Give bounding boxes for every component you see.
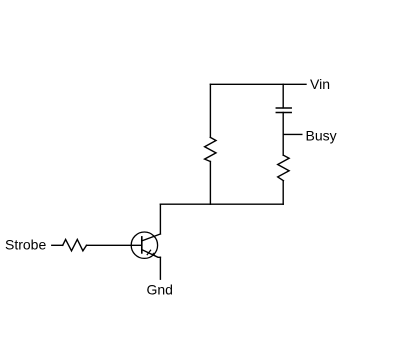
transistor Q1 emitter arrow barb (147, 250, 150, 254)
svg-text:Strobe: Strobe (5, 236, 46, 252)
wire right branch bottom vertical (282, 181, 284, 205)
capacitor C1 top plate (276, 107, 291, 109)
resistor R1 (left pull-up) (205, 137, 216, 161)
transistor Q1 body circle (131, 232, 157, 258)
wire emitter vertical to Gnd (159, 257, 161, 279)
wire left branch top vertical (209, 84, 211, 137)
wire right branch top vertical (282, 84, 284, 108)
wire capacitor to resistor vertical (282, 113, 284, 156)
wire resistor to base (87, 244, 142, 246)
transistor Q1 emitter arrow tip (152, 252, 156, 256)
transistor Q1 collector lead (142, 234, 161, 241)
wire collector vertical (159, 204, 161, 234)
resistor R2 (right) (278, 155, 289, 181)
wire Vin rail (top horizontal) (210, 83, 306, 85)
wire Busy stub (283, 133, 302, 135)
wire left branch bottom vertical (209, 162, 211, 205)
wire Strobe lead-in (52, 244, 63, 246)
transistor Q1 emitter lead (142, 250, 161, 258)
resistor R3 (Strobe series, horizontal) (63, 239, 87, 250)
wire bottom rail (collector node horizontal) (160, 203, 283, 205)
svg-text:Vin: Vin (310, 76, 330, 92)
transistor Q1 base bar (141, 237, 143, 253)
svg-text:Busy: Busy (306, 127, 337, 143)
capacitor C1 bottom plate (276, 112, 291, 114)
svg-text:Gnd: Gnd (147, 281, 173, 297)
